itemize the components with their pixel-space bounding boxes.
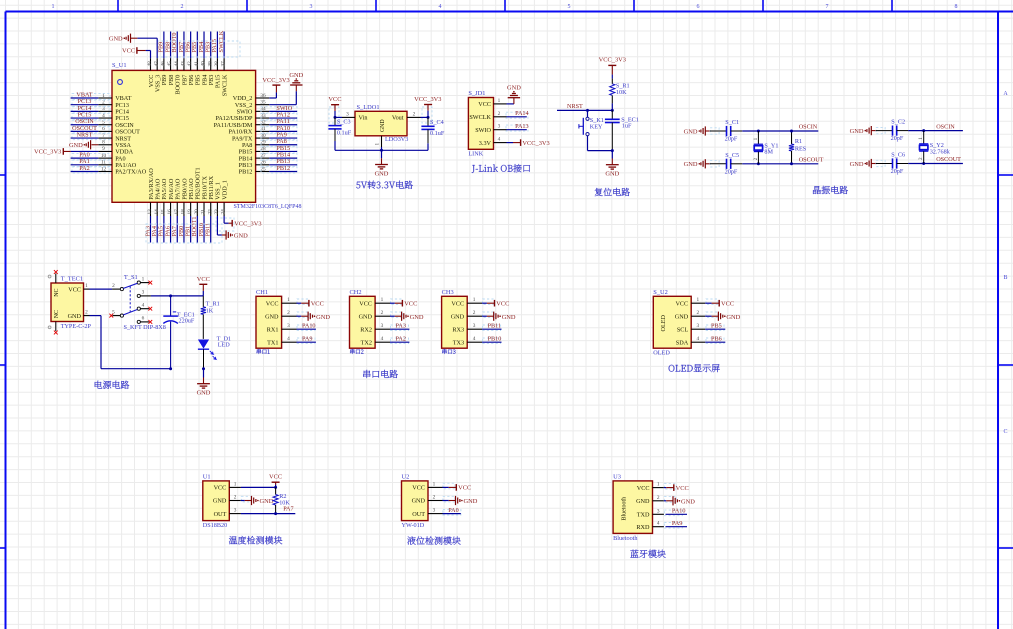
U2 pin 3 OUT: [412, 508, 442, 518]
mcu pin 22 PB11/RX: [207, 175, 215, 216]
wire net PA3: [390, 322, 409, 330]
svg-text:48: 48: [147, 61, 153, 67]
CH3 pin 1 VCC: [451, 297, 482, 307]
frame zone ticks top: [118, 0, 892, 12]
resistor R1 RES: [789, 130, 807, 166]
svg-text:PA2/TX/AO: PA2/TX/AO: [115, 169, 147, 176]
svg-text:SDA: SDA: [676, 339, 689, 346]
svg-text:S_JD1: S_JD1: [468, 90, 485, 97]
ground at CH1 pin 2: [297, 312, 331, 321]
wire net PA6: [164, 216, 171, 243]
wire net NRST: [557, 103, 612, 112]
svg-text:GND: GND: [265, 313, 279, 320]
svg-text:GND: GND: [726, 314, 740, 321]
svg-text:VCC_3V3: VCC_3V3: [234, 220, 261, 227]
ground at U3 pin 2: [664, 496, 695, 505]
connector JD1 body J-Link: [468, 98, 493, 150]
svg-text:VCC: VCC: [451, 300, 464, 307]
wire C3 junction to Vin: [334, 116, 343, 119]
svg-text:S_C3: S_C3: [337, 118, 351, 125]
wire net PC15: [71, 111, 110, 119]
svg-text:VCC: VCC: [412, 485, 425, 492]
wire net PB4: [198, 32, 205, 59]
svg-text:21: 21: [201, 209, 207, 215]
jlink pin 1 VCC: [478, 98, 506, 108]
svg-text:TX2: TX2: [361, 339, 372, 346]
jlink pin 4 3.3V: [479, 137, 507, 147]
power VCC at mcu pin 48: [122, 47, 150, 58]
svg-text:PA2: PA2: [396, 335, 406, 342]
wire net PB11: [205, 216, 212, 243]
svg-text:8M: 8M: [764, 149, 773, 156]
svg-text:GND: GND: [359, 313, 373, 320]
ground at jlink pin 1: [507, 85, 522, 104]
wire net PA9: [297, 335, 316, 343]
svg-text:RES: RES: [795, 145, 807, 152]
wire net PA11: [261, 118, 297, 126]
wire net BOOT0: [171, 32, 178, 59]
power VCC at U3 pin 1: [664, 483, 689, 492]
mcu pin 9 VDDA: [98, 146, 133, 155]
ground at mcu pin 35 VSS_2: [269, 72, 303, 105]
svg-text:PB10: PB10: [488, 335, 502, 342]
svg-text:22: 22: [207, 209, 213, 215]
power VCC at U2 pin 1: [443, 483, 472, 492]
svg-text:Vin: Vin: [359, 115, 368, 122]
tec1 pin 2 GND: [68, 310, 90, 320]
U3 pin 2 GND: [636, 495, 664, 505]
power VCC node: [197, 276, 210, 296]
wire net PB3: [205, 32, 212, 59]
connector label 串口3: [442, 349, 455, 354]
svg-text:GND: GND: [464, 498, 478, 505]
resistor R2 10K pull-up: [273, 487, 290, 515]
svg-text:S_C2: S_C2: [891, 119, 905, 126]
wire net SWIO: [261, 105, 297, 113]
ground at CH2 pin 2: [390, 312, 424, 321]
svg-text:VCC: VCC: [637, 485, 650, 492]
svg-text:VCC: VCC: [266, 300, 279, 307]
svg-text:U2: U2: [402, 473, 410, 480]
led T_D1: [198, 335, 231, 370]
svg-text:S_U2: S_U2: [653, 289, 668, 296]
svg-text:T_TEC1: T_TEC1: [61, 275, 83, 282]
svg-text:1: 1: [52, 4, 55, 10]
wire net PB10: [198, 216, 205, 243]
wire net PB6: [184, 32, 191, 59]
svg-text:23: 23: [214, 209, 220, 215]
svg-text:OSCOUT: OSCOUT: [936, 156, 961, 163]
mcu pin 15 PA5/AO: [160, 178, 168, 216]
svg-text:B: B: [1003, 275, 1007, 281]
wire net PA0: [71, 152, 110, 160]
svg-text:38: 38: [214, 61, 220, 67]
svg-text:U3: U3: [613, 473, 621, 480]
svg-text:3: 3: [310, 4, 313, 10]
svg-text:35: 35: [260, 99, 266, 105]
svg-text:43: 43: [181, 61, 187, 67]
svg-text:39: 39: [207, 61, 213, 67]
title reset circuit: [595, 188, 630, 196]
svg-text:GND: GND: [410, 314, 424, 321]
wire U1 VCC to R2 node: [241, 486, 277, 489]
svg-text:VCC: VCC: [496, 301, 509, 308]
svg-text:1K: 1K: [206, 307, 214, 314]
svg-text:OSCIN: OSCIN: [799, 124, 818, 131]
svg-text:VCC_3V3: VCC_3V3: [522, 140, 549, 147]
CH3 pin 3 RX3: [452, 323, 482, 333]
svg-text:CH2: CH2: [350, 289, 362, 296]
capacitor C4 0.1uF: [421, 117, 444, 150]
wire net PA7: [241, 506, 295, 514]
wire net PB1: [184, 216, 191, 243]
svg-text:20pF: 20pF: [891, 135, 904, 142]
wire Vout to C4 junction: [421, 116, 430, 119]
wire net PB5: [705, 322, 725, 330]
CH2 pin 4 TX2: [361, 336, 390, 346]
svg-text:20: 20: [194, 209, 200, 215]
svg-text:OUT: OUT: [214, 511, 227, 518]
wire net PA10: [297, 322, 316, 330]
tec1 NC pin top: [48, 270, 60, 297]
mcu pin 32 PA11/USB/DM: [214, 120, 270, 129]
power VCC_3V3 at jlink pin 4: [507, 139, 550, 147]
svg-text:PB12: PB12: [276, 165, 290, 172]
capacitor C3 0.1uF: [328, 117, 351, 150]
mcu pin 19 PB1/AO: [187, 178, 195, 216]
svg-text:OUT: OUT: [412, 511, 425, 518]
svg-text:VCC_3V3: VCC_3V3: [34, 149, 61, 156]
svg-text:4: 4: [498, 137, 501, 143]
svg-text:CH1: CH1: [256, 289, 268, 296]
CH2 pin 1 VCC: [359, 297, 390, 307]
svg-text:C: C: [1003, 429, 1007, 435]
svg-text:SWCLK: SWCLK: [221, 74, 228, 96]
svg-text:47: 47: [154, 61, 160, 67]
CH1 pin 4 TX1: [267, 336, 296, 346]
capacitor C2 20pF: [876, 119, 908, 143]
wire net PA13: [506, 123, 529, 131]
svg-text:5: 5: [568, 4, 571, 10]
wire OSCIN row: [908, 129, 963, 132]
title 液位检测模块: [407, 536, 460, 544]
mcu pin 34 SWIO: [237, 106, 270, 115]
svg-text:VCC_3V3: VCC_3V3: [414, 96, 441, 103]
svg-text:6: 6: [142, 316, 145, 322]
svg-text:GND: GND: [681, 498, 695, 505]
svg-text:LDO3V3: LDO3V3: [385, 136, 408, 143]
connector label 串口1: [257, 349, 270, 354]
svg-text:220uF: 220uF: [179, 318, 195, 325]
svg-text:GND: GND: [636, 498, 650, 505]
svg-text:RX3: RX3: [452, 326, 464, 333]
svg-text:PA7: PA7: [283, 506, 293, 513]
mcu pin 24 VDD_1: [221, 180, 229, 216]
svg-text:2: 2: [696, 310, 699, 316]
svg-text:PB11: PB11: [488, 322, 502, 329]
svg-text:GND: GND: [234, 232, 248, 239]
mcu pin 29 PA8: [242, 140, 269, 149]
svg-text:OLED: OLED: [660, 314, 667, 331]
ldo pin GND: [375, 119, 386, 147]
ground at C5: [684, 159, 710, 168]
ground at ldo: [375, 150, 389, 177]
mcu pin 26 PB13: [239, 160, 270, 169]
svg-text:44: 44: [174, 61, 180, 67]
svg-text:CH3: CH3: [442, 289, 454, 296]
wire net PA0: [443, 507, 461, 515]
wire net PA2: [390, 335, 409, 343]
svg-text:RXD: RXD: [636, 524, 650, 531]
svg-text:VCC: VCC: [214, 485, 227, 492]
svg-text:NRST: NRST: [567, 103, 583, 110]
wire VCC_3V3 to C4: [422, 107, 432, 123]
svg-text:1: 1: [142, 276, 145, 282]
svg-text:STM32F103C8T6_LQFP48: STM32F103C8T6_LQFP48: [234, 204, 302, 210]
svg-text:2: 2: [473, 310, 476, 316]
CH2 pin 2 GND: [359, 310, 390, 320]
wire switch to vcc rail: [151, 294, 203, 297]
wire net PA7: [171, 216, 178, 243]
svg-text:4: 4: [657, 521, 660, 527]
svg-text:VCC: VCC: [721, 301, 734, 308]
svg-text:20pF: 20pF: [725, 168, 738, 175]
svg-text:GND: GND: [451, 313, 465, 320]
svg-text:41: 41: [194, 61, 200, 67]
svg-text:2: 2: [85, 310, 88, 316]
ground at mcu pin 47 VSS_3: [109, 34, 157, 59]
wire net PA4: [151, 216, 158, 243]
oled pin 4 SDA: [676, 336, 705, 346]
svg-text:GND: GND: [69, 142, 83, 149]
svg-text:Vout: Vout: [392, 115, 404, 122]
svg-text:TXD: TXD: [637, 512, 650, 519]
svg-text:3: 3: [433, 508, 436, 514]
svg-text:S_C4: S_C4: [430, 119, 444, 126]
svg-text:3.3V: 3.3V: [479, 140, 492, 147]
U3 pin 3 TXD: [637, 508, 664, 518]
switch S1 S_KFT DIP-8X8: [112, 274, 166, 331]
svg-text:3: 3: [142, 290, 145, 296]
svg-text:LED: LED: [218, 342, 231, 349]
svg-text:LINK: LINK: [468, 150, 483, 157]
wire net PB5: [191, 32, 198, 59]
mcu pin 35 VSS_2: [235, 99, 269, 108]
selection marks top: [157, 41, 240, 57]
svg-text:GND: GND: [850, 128, 864, 135]
mcu pin 20 PB2/BOOT1: [194, 167, 202, 216]
wire net PA15: [211, 32, 218, 59]
wire net PB11: [482, 322, 501, 330]
svg-text:14: 14: [154, 209, 160, 215]
mcu pin 2 PC13: [98, 99, 129, 108]
svg-text:VCC: VCC: [68, 286, 81, 293]
svg-text:1: 1: [433, 481, 436, 487]
CH3 pin 4 TX3: [453, 336, 482, 346]
svg-text:2: 2: [287, 310, 290, 316]
svg-text:0.1uF: 0.1uF: [337, 130, 352, 137]
mcu pin 25 PB12: [239, 166, 270, 175]
svg-text:18: 18: [181, 209, 187, 215]
svg-text:S_LDO1: S_LDO1: [357, 104, 380, 111]
svg-text:32.768k: 32.768k: [930, 148, 951, 155]
svg-text:1: 1: [473, 297, 476, 303]
oled pin 3 SCL: [677, 323, 705, 333]
wire tec1 gnd down to rail: [90, 316, 171, 369]
svg-text:42: 42: [187, 61, 193, 67]
U1 pin 3 OUT: [214, 508, 241, 518]
svg-text:4: 4: [439, 4, 442, 10]
wire net PA14: [506, 110, 529, 118]
svg-text:1: 1: [287, 297, 290, 303]
power VCC_3V3 at mcu pin 9 VDDA: [34, 148, 98, 156]
wire net PA9: [664, 520, 687, 528]
wire net PB0: [178, 216, 185, 243]
svg-text:PA3: PA3: [396, 322, 406, 329]
capacitor T_EC1 220uF electrolytic: [163, 296, 195, 370]
mcu pin 12 PA2/TX/AO: [98, 166, 146, 175]
wire net OSCIN: [71, 118, 110, 126]
power VCC_3V3 at mcu pin 24 VDD_1: [224, 216, 261, 227]
svg-text:8: 8: [955, 4, 958, 10]
svg-text:VCC: VCC: [122, 48, 135, 55]
CH2 pin 3 RX2: [360, 323, 390, 333]
svg-text:2: 2: [381, 310, 384, 316]
U2 pin 2 GND: [412, 495, 443, 505]
svg-text:RX1: RX1: [267, 326, 279, 333]
resistor R1 10K: [610, 79, 630, 104]
svg-text:NRST: NRST: [77, 131, 93, 138]
svg-text:PB5: PB5: [711, 322, 722, 329]
mcu pin 16 PA6/AO: [167, 178, 175, 216]
svg-text:S_C6: S_C6: [891, 152, 905, 159]
mcu pin 23 VSS_1: [214, 182, 222, 216]
svg-text:2: 2: [112, 283, 115, 289]
tec1 pin 1 VCC: [68, 283, 89, 293]
svg-text:GND: GND: [68, 313, 82, 320]
pushbutton K1 KEY: [579, 110, 612, 150]
title power circuit: [95, 381, 129, 389]
svg-text:VCC: VCC: [328, 96, 341, 103]
mcu pin 17 PA7/AO: [174, 178, 182, 216]
ground reset: [605, 151, 619, 178]
wire net PB9: [158, 32, 165, 59]
svg-text:SCL: SCL: [677, 326, 689, 333]
svg-text:GND: GND: [380, 119, 386, 132]
power VCC at ldo input: [328, 96, 341, 111]
ground at U1 pin 2: [241, 496, 274, 505]
svg-text:3: 3: [381, 323, 384, 329]
svg-text:2: 2: [413, 111, 416, 117]
crystal S_Y2 32.768k: [919, 131, 951, 164]
svg-text:45: 45: [167, 61, 173, 67]
U1 pin 2 GND: [213, 495, 241, 505]
mcu pin 37 SWCLK: [221, 58, 229, 96]
svg-text:GND: GND: [675, 313, 689, 320]
svg-text:46: 46: [160, 61, 166, 67]
mcu pin 5 OSCIN: [98, 120, 134, 129]
U2 pin 1 VCC: [412, 481, 442, 491]
svg-text:20pF: 20pF: [891, 168, 904, 175]
title OLED display: [669, 364, 720, 372]
svg-text:7: 7: [826, 4, 829, 10]
svg-text:VCC: VCC: [404, 301, 417, 308]
svg-text:1: 1: [234, 481, 237, 487]
svg-text:VCC_3V3: VCC_3V3: [599, 57, 626, 64]
wire net PB10: [482, 335, 501, 343]
mcu pin 21 PB10/TX: [201, 175, 209, 216]
mcu pin 6 OSCOUT: [98, 126, 140, 135]
svg-text:4: 4: [142, 302, 145, 308]
svg-text:YW-01D: YW-01D: [402, 522, 425, 529]
mcu pin 46 PB9: [160, 58, 168, 85]
svg-text:PA14: PA14: [515, 110, 529, 117]
svg-text:0.1uF: 0.1uF: [430, 130, 445, 137]
svg-text:15: 15: [160, 209, 166, 215]
oled pin 1 VCC: [675, 297, 705, 307]
CH1 pin 2 GND: [265, 310, 296, 320]
svg-text:Bluetooth: Bluetooth: [622, 497, 628, 521]
mcu pin 45 PB8: [167, 58, 175, 85]
module U3 body Bluetooth: [613, 481, 652, 534]
wire net PB13: [261, 158, 297, 166]
ldo pin Vin: [342, 111, 367, 121]
title temperature module: [229, 536, 282, 544]
mcu pin 18 PB0/AO: [181, 178, 189, 216]
svg-text:1: 1: [696, 297, 699, 303]
wire net PB6: [705, 335, 725, 343]
capacitor C1 20pF: [710, 119, 742, 143]
svg-text:4: 4: [381, 336, 384, 342]
svg-text:6: 6: [697, 4, 700, 10]
connector CH2 body: [350, 296, 376, 348]
svg-text:VCC_3V3: VCC_3V3: [262, 77, 289, 84]
svg-text:1: 1: [381, 297, 384, 303]
svg-text:TX1: TX1: [267, 339, 278, 346]
title bluetooth module: [630, 550, 665, 558]
wire net PB7: [178, 32, 185, 59]
svg-text:1: 1: [657, 482, 660, 488]
svg-text:GND: GND: [109, 36, 123, 43]
frame zone ticks sides: [0, 175, 1013, 548]
svg-text:SWIO: SWIO: [475, 127, 491, 134]
power VCC at CH2 pin 1: [390, 299, 417, 308]
svg-text:PA0: PA0: [448, 507, 458, 514]
svg-text:NC: NC: [54, 288, 60, 296]
svg-text:13: 13: [147, 209, 153, 215]
svg-text:GND: GND: [412, 498, 426, 505]
svg-text:Bluetooth: Bluetooth: [613, 535, 638, 542]
wire net PB14: [261, 152, 297, 160]
svg-text:R1: R1: [795, 138, 802, 145]
svg-text:9: 9: [102, 146, 105, 152]
svg-text:GND: GND: [375, 171, 389, 178]
mcu pin 13 PA3/RX/AO: [147, 168, 155, 216]
svg-text:PB11: PB11: [205, 223, 212, 237]
svg-text:PA9: PA9: [302, 335, 312, 342]
svg-text:U1: U1: [203, 473, 211, 480]
wire ldo bottom rail: [335, 147, 428, 152]
resistor T_R1 1K: [201, 296, 220, 339]
ground at mcu pin 8 VSSA: [69, 140, 98, 149]
wire vcc to R1: [611, 75, 613, 79]
mcu pin 27 PB14: [239, 153, 270, 162]
svg-text:36: 36: [260, 93, 266, 99]
svg-text:PA13: PA13: [515, 123, 529, 130]
svg-text:40: 40: [201, 61, 207, 67]
mcu pin 41 PB5: [194, 58, 202, 85]
CH1 pin 3 RX1: [267, 323, 297, 333]
